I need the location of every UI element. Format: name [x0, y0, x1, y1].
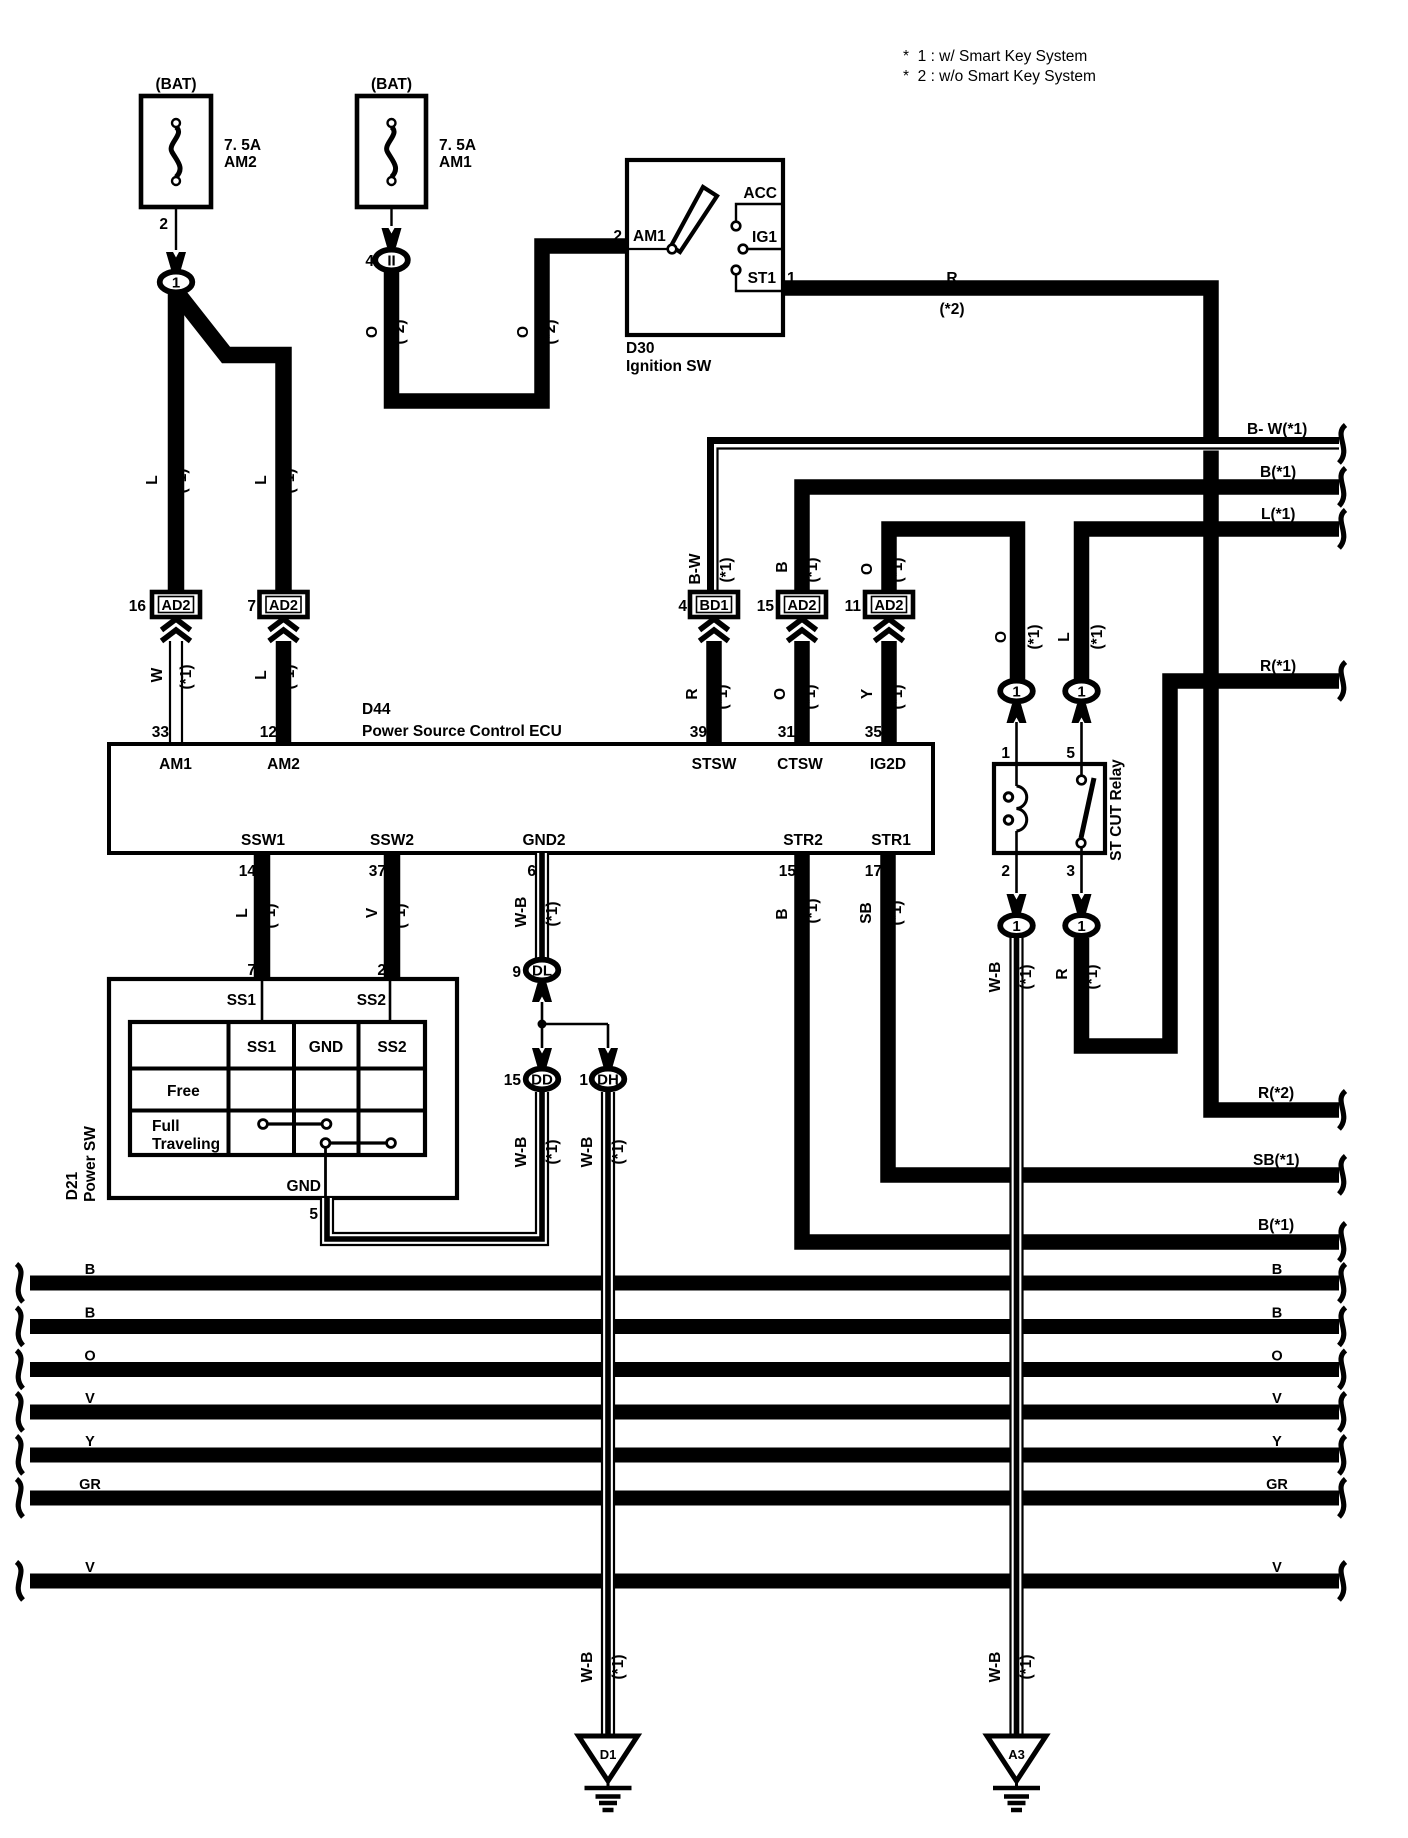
label D30 Ignition SW — [626, 340, 712, 375]
svg-text:9: 9 — [512, 964, 521, 981]
power SW contact GND-SS2 — [321, 1139, 395, 1148]
wire L(*1) 7AD2 to ECU AM2 — [253, 641, 298, 744]
svg-text:O: O — [84, 1349, 95, 1365]
svg-text:(*1): (*1) — [804, 899, 821, 924]
svg-text:R: R — [1054, 968, 1071, 979]
right edge R(*2) — [1258, 1085, 1346, 1129]
wire SB(*1) ECU STR1 to right edge — [858, 853, 1339, 1175]
svg-text:STR1: STR1 — [871, 832, 911, 849]
right edge B(*1) — [1260, 464, 1346, 506]
svg-text:V: V — [85, 1391, 95, 1407]
svg-text:(*1): (*1) — [1026, 625, 1043, 650]
bus wire O y1369 — [17, 1349, 1346, 1389]
svg-text:GR: GR — [79, 1477, 101, 1493]
power SW contact table — [130, 1022, 425, 1155]
ignition SW IG1 terminal — [739, 229, 781, 253]
svg-text:L: L — [253, 670, 270, 679]
wire fuse AM2 pin 2 — [159, 207, 176, 250]
svg-text:W-B: W-B — [513, 1137, 530, 1168]
right edge B-W(*1) — [1247, 421, 1346, 463]
svg-text:(*2): (*2) — [542, 320, 559, 345]
right edge R(*1) — [1260, 658, 1346, 700]
svg-text:SS2: SS2 — [377, 1039, 406, 1056]
svg-text:SS2: SS2 — [357, 992, 386, 1009]
connector 16 AD2 — [129, 592, 200, 641]
svg-text:15: 15 — [779, 863, 797, 880]
svg-text:B: B — [85, 1262, 95, 1278]
wire DL to junction — [541, 1002, 544, 1048]
svg-text:B(*1): B(*1) — [1258, 1217, 1294, 1234]
svg-text:(*1): (*1) — [888, 901, 905, 926]
svg-text:Y: Y — [859, 688, 876, 699]
svg-text:B: B — [1272, 1262, 1282, 1278]
ignition SW ACC terminal — [732, 185, 781, 230]
svg-text:17: 17 — [865, 863, 882, 880]
connector 1 (relay pin3) — [1065, 894, 1098, 936]
svg-text:W-B: W-B — [513, 897, 530, 928]
svg-text:GND2: GND2 — [522, 832, 565, 849]
svg-text:W-B: W-B — [579, 1652, 596, 1683]
svg-text:B: B — [85, 1306, 95, 1322]
svg-text:SSW2: SSW2 — [370, 832, 414, 849]
svg-text:(*1): (*1) — [889, 685, 906, 710]
svg-text:A3: A3 — [1008, 1747, 1025, 1762]
junction node — [538, 1020, 609, 1049]
svg-text:B: B — [774, 908, 791, 919]
svg-text:O: O — [515, 326, 532, 338]
bus wire V y1412 — [17, 1391, 1346, 1431]
wire R(*1) 4BD1 to ECU STSW — [684, 641, 731, 744]
wire W-B(*1) relay pin2 to ground A3 — [987, 938, 1035, 1734]
connector 1 (relay pin5) — [1065, 681, 1098, 723]
svg-text:4: 4 — [678, 598, 687, 615]
svg-text:AM1: AM1 — [159, 756, 192, 773]
svg-text:1: 1 — [1001, 745, 1010, 762]
svg-text:7: 7 — [247, 598, 256, 615]
svg-text:12: 12 — [260, 724, 277, 741]
svg-text:1: 1 — [172, 274, 180, 291]
svg-text:(*1): (*1) — [1018, 965, 1035, 990]
wire fuse AM1 pin 4 — [390, 207, 392, 226]
ground D1 — [579, 1736, 638, 1810]
power SW contact SS1-GND — [259, 1120, 331, 1129]
svg-text:39: 39 — [690, 724, 708, 741]
svg-text:O: O — [1271, 1349, 1282, 1365]
legend note — [903, 48, 1096, 85]
bus wire B y1326 — [17, 1306, 1346, 1346]
svg-text:Ignition SW: Ignition SW — [626, 358, 712, 375]
power SW GND lead — [287, 1147, 326, 1223]
bus wire GR y1498 — [17, 1477, 1346, 1517]
svg-text:1: 1 — [1077, 683, 1085, 700]
ground A3 — [987, 1736, 1046, 1810]
svg-text:D1: D1 — [600, 1747, 617, 1762]
relay switch — [1077, 766, 1094, 851]
svg-text:B(*1): B(*1) — [1260, 464, 1296, 481]
svg-text:AD2: AD2 — [269, 598, 298, 614]
svg-text:(*1): (*1) — [1089, 625, 1106, 650]
svg-text:GR: GR — [1266, 1477, 1288, 1493]
svg-text:AM2: AM2 — [224, 154, 257, 171]
svg-text:Power SW: Power SW — [82, 1126, 99, 1202]
wire R(*2) from ST1 — [783, 270, 1339, 1110]
wire W-B(*1) power SW GND to DD — [321, 1092, 561, 1245]
svg-text:V: V — [85, 1560, 95, 1576]
svg-text:Y: Y — [1272, 1434, 1282, 1450]
svg-text:(*1): (*1) — [1018, 1655, 1035, 1680]
wire L(*1) connector1 to 16AD2 — [144, 293, 190, 592]
svg-text:CTSW: CTSW — [777, 756, 823, 773]
svg-text:7. 5A: 7. 5A — [439, 137, 476, 154]
svg-text:Free: Free — [167, 1083, 200, 1100]
svg-text:(*2): (*2) — [940, 301, 965, 318]
ST CUT relay box — [994, 759, 1125, 861]
svg-text:O: O — [772, 688, 789, 700]
connector 15 AD2 — [757, 592, 826, 641]
svg-text:(*1): (*1) — [804, 558, 821, 583]
svg-text:37: 37 — [369, 863, 386, 880]
svg-text:L: L — [1056, 632, 1073, 641]
relay pin 1 lead — [1001, 722, 1016, 764]
svg-text:2: 2 — [613, 228, 622, 245]
svg-text:DH: DH — [597, 1071, 619, 1088]
svg-text:AM2: AM2 — [267, 756, 300, 773]
svg-text:15: 15 — [757, 598, 775, 615]
svg-text:DD: DD — [531, 1071, 553, 1088]
svg-text:(*1): (*1) — [718, 558, 735, 583]
wire B(*1) from 15AD2 to right edge — [774, 487, 1339, 592]
ECU D44 Power Source Control ECU box — [109, 701, 933, 853]
wire W-B(*1) ECU GND2 to DL — [513, 853, 561, 959]
svg-text:ST CUT Relay: ST CUT Relay — [1108, 759, 1125, 861]
svg-text:W: W — [149, 667, 166, 682]
wire R(*1) from relay pin3 to right edge — [1054, 681, 1339, 1046]
svg-text:(*1): (*1) — [178, 665, 195, 690]
svg-text:7: 7 — [247, 962, 256, 979]
svg-text:(*1): (*1) — [392, 904, 409, 929]
svg-text:D21: D21 — [64, 1171, 81, 1200]
fuse 7.5A AM1 (BAT) — [357, 76, 476, 207]
svg-text:AM1: AM1 — [439, 154, 472, 171]
svg-text:L: L — [253, 475, 270, 484]
svg-text:14: 14 — [239, 863, 257, 880]
svg-text:31: 31 — [778, 724, 796, 741]
svg-text:15: 15 — [504, 1072, 522, 1089]
svg-text:O: O — [859, 563, 876, 575]
svg-text:O: O — [993, 631, 1010, 643]
svg-text:B-W: B-W — [687, 553, 704, 584]
svg-text:(*1): (*1) — [889, 558, 906, 583]
svg-text:W-B: W-B — [579, 1137, 596, 1168]
connector 1 DH — [579, 1048, 624, 1089]
svg-text:SB: SB — [858, 902, 875, 924]
ignition switch D30 box — [627, 160, 783, 335]
svg-text:STSW: STSW — [692, 756, 737, 773]
svg-text:STR2: STR2 — [783, 832, 823, 849]
svg-text:B- W(*1): B- W(*1) — [1247, 421, 1307, 438]
ignition SW ST1 terminal — [732, 266, 796, 291]
svg-text:(*1): (*1) — [173, 469, 190, 494]
connector 11 AD2 — [845, 592, 913, 641]
wire Y(*1) 11AD2 to ECU IG2D — [859, 641, 906, 744]
connector 1 (AM2) — [160, 252, 193, 292]
connector 1 (relay pin1) — [1000, 681, 1033, 723]
wire L(*1) ECU SSW1 to power SW SS1 — [234, 853, 279, 979]
svg-text:3: 3 — [1066, 863, 1075, 880]
svg-text:(BAT): (BAT) — [371, 76, 412, 93]
wire L(*1) branch to 7AD2 — [178, 294, 298, 592]
relay pin 2 lead — [1001, 853, 1016, 893]
svg-text:B: B — [1272, 1306, 1282, 1322]
svg-text:SSW1: SSW1 — [241, 832, 285, 849]
svg-text:16: 16 — [129, 598, 147, 615]
svg-text:V: V — [1272, 1391, 1282, 1407]
svg-text:SB(*1): SB(*1) — [1253, 1152, 1300, 1169]
svg-text:L: L — [234, 908, 251, 917]
connector 7 AD2 — [247, 592, 307, 641]
svg-text:(*1): (*1) — [802, 685, 819, 710]
svg-text:ACC: ACC — [743, 185, 777, 202]
svg-text:GND: GND — [287, 1178, 321, 1195]
svg-text:Power Source Control ECU: Power Source Control ECU — [362, 723, 562, 740]
svg-text:IG2D: IG2D — [870, 756, 906, 773]
svg-text:R: R — [684, 688, 701, 699]
svg-text:GND: GND — [309, 1039, 343, 1056]
connector II (AM1) — [365, 228, 407, 270]
power SW D21 box — [64, 979, 457, 1202]
svg-text:R: R — [946, 270, 957, 287]
svg-text:(*1): (*1) — [262, 904, 279, 929]
right edge B(*1) lower — [1258, 1217, 1346, 1261]
svg-text:SS1: SS1 — [247, 1039, 277, 1056]
svg-text:33: 33 — [152, 724, 170, 741]
svg-text:AD2: AD2 — [787, 598, 816, 614]
svg-text:7. 5A: 7. 5A — [224, 137, 261, 154]
svg-text:L(*1): L(*1) — [1261, 506, 1295, 523]
connector 1 (relay pin2) — [1000, 894, 1033, 936]
wire B-W(*1) from 4BD1 to right edge — [687, 441, 1339, 593]
svg-text:L: L — [144, 475, 161, 484]
svg-text:(BAT): (BAT) — [155, 76, 196, 93]
wire O(*1) 15AD2 to ECU CTSW — [772, 641, 819, 744]
svg-text:35: 35 — [865, 724, 883, 741]
svg-text:(*1): (*1) — [714, 685, 731, 710]
svg-text:(*1): (*1) — [281, 469, 298, 494]
wire V(*1) ECU SSW2 to power SW SS2 — [364, 853, 409, 979]
bus wire B y1283 — [17, 1262, 1346, 1302]
svg-text:1: 1 — [1012, 918, 1020, 935]
svg-text:R(*2): R(*2) — [1258, 1085, 1294, 1102]
svg-text:W-B: W-B — [987, 1652, 1004, 1683]
wire O(*2) fuse AM1 to ignition SW AM1 — [364, 246, 628, 401]
right edge SB(*1) — [1253, 1152, 1346, 1194]
relay coil — [1004, 766, 1026, 851]
wire L(*1) from relay pin5 to right edge — [1056, 529, 1339, 679]
svg-text:AM1: AM1 — [633, 228, 666, 245]
svg-text:1: 1 — [579, 1072, 588, 1089]
bus wire Y y1455 — [17, 1434, 1346, 1474]
wire W(*1) 16AD2 to ECU AM1 — [149, 641, 195, 744]
svg-text:1: 1 — [1012, 683, 1020, 700]
svg-text:V: V — [1272, 1560, 1282, 1576]
svg-text:(*1): (*1) — [544, 902, 561, 927]
wire B(*1) ECU STR2 to right edge — [774, 853, 1339, 1242]
ignition SW AM1 contact and lever — [613, 187, 717, 253]
right edge L(*1) — [1261, 506, 1346, 548]
svg-text:O: O — [364, 326, 381, 338]
wire O(*1) from 11AD2 to ST CUT relay pin1 — [859, 529, 1043, 679]
power SW SS2 lead — [357, 981, 390, 1022]
svg-text:II: II — [387, 252, 395, 269]
svg-text:4: 4 — [365, 253, 374, 270]
connector 4 BD1 — [678, 592, 738, 641]
svg-text:IG1: IG1 — [752, 229, 777, 246]
svg-text:* 2 : w/o Smart Key System: * 2 : w/o Smart Key System — [903, 68, 1096, 85]
svg-text:(*1): (*1) — [610, 1140, 627, 1165]
svg-text:D30: D30 — [626, 340, 654, 357]
svg-text:AD2: AD2 — [874, 598, 903, 614]
svg-text:1: 1 — [1077, 918, 1085, 935]
svg-text:(*1): (*1) — [281, 665, 298, 690]
svg-text:W-B: W-B — [987, 962, 1004, 993]
svg-text:B: B — [774, 561, 791, 572]
connector 9 DL — [512, 960, 558, 1002]
svg-text:(*1): (*1) — [610, 1655, 627, 1680]
svg-text:5: 5 — [309, 1206, 318, 1223]
svg-text:(*1): (*1) — [544, 1140, 561, 1165]
svg-text:5: 5 — [1066, 745, 1075, 762]
svg-text:(*2): (*2) — [391, 320, 408, 345]
svg-text:Traveling: Traveling — [152, 1136, 220, 1153]
relay pin 3 lead — [1066, 853, 1081, 893]
svg-text:DL: DL — [532, 962, 552, 979]
svg-text:Y: Y — [85, 1434, 95, 1450]
svg-text:ST1: ST1 — [748, 270, 777, 287]
fuse 7.5A AM2 (BAT) — [141, 76, 261, 207]
power SW SS1 lead — [227, 981, 262, 1022]
svg-text:* 1 : w/ Smart Key System: * 1 : w/ Smart Key System — [903, 48, 1087, 65]
connector 15 DD — [504, 1048, 559, 1089]
bus wire V y1581 — [17, 1560, 1346, 1600]
relay pin 5 lead — [1066, 722, 1081, 764]
svg-text:2: 2 — [159, 216, 168, 233]
svg-text:AD2: AD2 — [161, 598, 190, 614]
svg-text:Full: Full — [152, 1118, 180, 1135]
wire W-B(*1) DH to ground D1 — [579, 1092, 627, 1734]
svg-text:V: V — [364, 907, 381, 918]
svg-text:11: 11 — [845, 598, 862, 615]
svg-text:2: 2 — [1001, 863, 1010, 880]
svg-text:(*1): (*1) — [1084, 965, 1101, 990]
svg-text:R(*1): R(*1) — [1260, 658, 1296, 675]
svg-text:SS1: SS1 — [227, 992, 257, 1009]
svg-text:D44: D44 — [362, 701, 391, 718]
svg-text:2: 2 — [377, 962, 386, 979]
svg-text:BD1: BD1 — [699, 598, 728, 614]
